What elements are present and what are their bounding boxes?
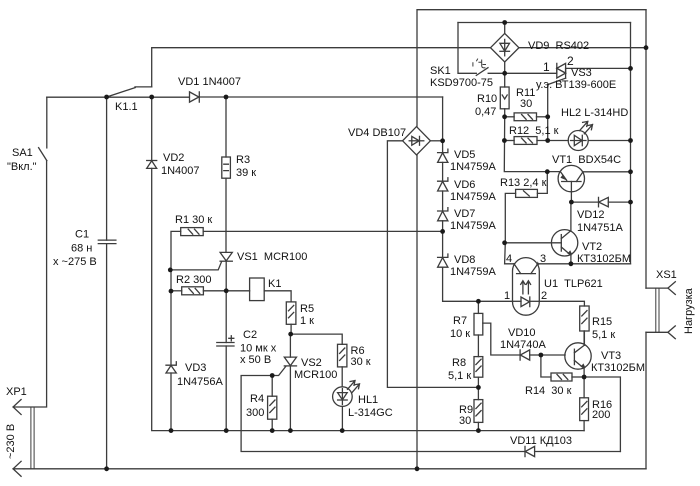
svg-text:R12 5,1 к: R12 5,1 к — [509, 125, 559, 137]
wire: rail VD6-VD7 — [442, 191, 444, 211]
wire: U1 pin2 to R15 — [539, 301, 584, 306]
relay coil K1 — [250, 278, 265, 301]
wire: VS2 column — [289, 334, 291, 357]
svg-text:10 к: 10 к — [450, 328, 470, 340]
thermal switch SK1 — [473, 59, 505, 75]
svg-text:VD3: VD3 — [185, 362, 206, 374]
svg-text:R8: R8 — [452, 357, 466, 369]
wire: K1 feed — [226, 290, 249, 292]
wire: y=97 after VD1 — [200, 96, 443, 98]
svg-text:VD10: VD10 — [508, 327, 536, 339]
svg-text:KSD9700-75: KSD9700-75 — [430, 77, 493, 89]
zener VD8 — [438, 254, 448, 267]
svg-text:K1: K1 — [268, 278, 281, 290]
wire: VT2 base column from R13 — [505, 243, 514, 264]
wire: inner rail left leg to SK1 — [458, 23, 476, 74]
svg-text:C2: C2 — [243, 329, 257, 341]
wire: VS1 gate node down to R2 — [170, 270, 172, 291]
svg-text:R10: R10 — [477, 93, 497, 105]
capacitor C2 — [217, 336, 234, 346]
svg-text:1N4756A: 1N4756A — [177, 376, 224, 388]
svg-text:4: 4 — [506, 253, 512, 265]
svg-text:R5: R5 — [300, 303, 314, 315]
svg-text:х ~275 В: х ~275 В — [53, 256, 97, 268]
svg-text:VD9 RS402: VD9 RS402 — [528, 40, 589, 52]
LED HL1 — [333, 381, 360, 431]
svg-text:C1: C1 — [75, 229, 89, 241]
triac VS3 — [557, 63, 566, 78]
svg-text:х 50 В: х 50 В — [240, 354, 271, 366]
svg-text:1 к: 1 к — [300, 315, 314, 327]
svg-text:68 н: 68 н — [71, 243, 92, 255]
wire: VS3 pin2 to rail — [566, 67, 631, 69]
svg-text:VS2: VS2 — [301, 357, 322, 369]
svg-text:200: 200 — [592, 409, 610, 421]
resistor R8 — [474, 357, 483, 388]
svg-text:Нагрузка: Нагрузка — [683, 287, 695, 334]
svg-text:VD12: VD12 — [577, 209, 605, 221]
bridge VD9 — [491, 33, 519, 62]
svg-text:VT3: VT3 — [601, 350, 621, 362]
wire: phase top y=97 — [47, 96, 190, 98]
svg-text:VD2: VD2 — [163, 152, 184, 164]
svg-text:L-314GC: L-314GC — [348, 407, 393, 419]
wire: R10-R11-R12 column — [504, 117, 560, 172]
svg-text:1N4740A: 1N4740A — [500, 339, 547, 351]
wire: zener rail top corner — [442, 97, 444, 152]
wire: VD10 node down to R14 — [541, 355, 551, 377]
svg-text:VD11 КД103: VD11 КД103 — [510, 435, 572, 447]
wire: VS3 pin1 to SK1 node — [505, 72, 557, 74]
wire: VD9 top to inner rail — [504, 23, 506, 34]
svg-text:R2 300: R2 300 — [176, 274, 211, 286]
optocoupler U1 — [513, 258, 540, 316]
resistor R9 — [474, 400, 483, 431]
transistor VT2 — [504, 202, 578, 264]
wire: U1 pin3 to VT2 emitter and rail end — [538, 263, 631, 265]
thyristor VS1 — [220, 252, 232, 261]
svg-text:300: 300 — [246, 407, 264, 419]
socket XS1 lower contact — [646, 326, 675, 339]
wire: VD2 column — [152, 97, 584, 431]
wire: rail VD8 to U1 pin1 — [443, 267, 513, 301]
wire: R7 top at U1 pin1 wire — [477, 301, 479, 313]
wire: rail VD7-VD8 — [442, 221, 444, 257]
svg-text:2: 2 — [567, 54, 574, 68]
thyristor VS2 — [284, 357, 296, 431]
contact K1.1 — [107, 87, 152, 97]
resistor R6 — [338, 344, 347, 387]
svg-text:VT1 BDX54C: VT1 BDX54C — [552, 154, 621, 166]
svg-text:XP1: XP1 — [6, 386, 27, 398]
wire: VD4 left vertex down to R8/R9 node — [387, 141, 478, 388]
wire: VD4 bottom to neutral — [416, 155, 418, 469]
svg-text:1N4759A: 1N4759A — [450, 220, 497, 232]
diode VD11 — [525, 446, 620, 456]
svg-text:R15: R15 — [592, 316, 612, 328]
wire: rail VD5-VD6 — [442, 162, 444, 181]
svg-text:1: 1 — [504, 290, 510, 302]
svg-text:39 к: 39 к — [236, 167, 256, 179]
svg-text:VD8: VD8 — [454, 254, 475, 266]
svg-text:30 к: 30 к — [351, 356, 371, 368]
resistor R12 — [504, 137, 568, 145]
svg-text:3: 3 — [540, 253, 546, 265]
svg-text:VS3: VS3 — [571, 67, 592, 79]
svg-text:КТ3102БМ: КТ3102БМ — [591, 362, 645, 374]
resistor R5 — [286, 302, 296, 334]
svg-text:30: 30 — [520, 98, 532, 110]
transistor VT3 — [565, 331, 591, 377]
svg-text:VD5: VD5 — [454, 149, 475, 161]
plug XP1 double line — [31, 407, 34, 469]
wire: SK1 node down to R10 — [504, 73, 506, 87]
svg-text:R1 30 к: R1 30 к — [175, 214, 212, 226]
wire: R8/R9 node — [477, 387, 479, 399]
resistor R1 — [171, 228, 443, 270]
wire: VD9 right vertex to right edge — [519, 47, 646, 49]
svg-text:R14 30 к: R14 30 к — [525, 385, 572, 397]
svg-text:XS1: XS1 — [656, 269, 677, 281]
resistor R15 — [580, 306, 589, 345]
svg-text:R4: R4 — [250, 393, 264, 405]
zener VD5 — [438, 149, 448, 162]
diode VD10 — [520, 350, 541, 360]
svg-text:0,47: 0,47 — [475, 106, 496, 118]
wire: rail x=630.5 — [630, 23, 632, 264]
switch SA1 — [39, 97, 47, 160]
wire: VS1 gate — [170, 262, 221, 270]
zener VD3 — [166, 362, 176, 373]
wire: VD10 node to VT3 base — [541, 354, 565, 356]
wire: right edge upper — [645, 10, 647, 288]
svg-text:U1 TLP621: U1 TLP621 — [544, 278, 603, 290]
wire: R11 right down to R12 right — [547, 117, 549, 141]
svg-text:SK1: SK1 — [430, 65, 451, 77]
svg-text:"Вкл.": "Вкл." — [7, 161, 37, 173]
diode VD2 — [147, 161, 157, 169]
svg-text:5,1 к: 5,1 к — [592, 329, 615, 341]
zener VD7 — [438, 208, 448, 221]
diode VD1 — [190, 92, 200, 102]
svg-text:1N4751A: 1N4751A — [577, 222, 624, 234]
svg-text:5,1 к: 5,1 к — [448, 370, 471, 382]
svg-text:VD1 1N4007: VD1 1N4007 — [178, 76, 241, 88]
wire: R3 / VS1 column — [225, 97, 227, 431]
resistor R7 — [474, 313, 483, 356]
svg-text:R13 2,4 к: R13 2,4 к — [500, 177, 547, 189]
svg-text:VS1 MCR100: VS1 MCR100 — [237, 251, 307, 263]
svg-text:VT2: VT2 — [582, 241, 602, 253]
bridge VD4 — [403, 127, 431, 155]
svg-text:у.э. ВТ139-600Е: у.э. ВТ139-600Е — [536, 79, 616, 91]
svg-text:1N4759A: 1N4759A — [450, 191, 497, 203]
capacitor C1 — [98, 240, 116, 244]
wire: VT3 emitter node right to VD11 riser — [584, 377, 620, 452]
wire: K1 to R5 — [264, 291, 291, 302]
resistor R14 — [551, 373, 584, 381]
svg-text:VD6: VD6 — [454, 179, 475, 191]
wire: VD3 column — [170, 291, 172, 431]
resistor R11 — [505, 113, 548, 121]
zener VD6 — [438, 178, 448, 191]
wire: XP1 upper pin to SA1 — [13, 161, 47, 415]
svg-text:2: 2 — [541, 290, 547, 302]
svg-text:~230 В: ~230 В — [5, 424, 17, 459]
socket XS1 double line — [656, 288, 659, 332]
wire: R7 tap to VD10 — [483, 323, 520, 355]
socket XS1 upper contact — [646, 282, 675, 295]
LED HL2 — [568, 121, 630, 150]
wire: VS2 gate run to VD11 — [241, 367, 525, 452]
wire: node R5 bottom to R6 — [290, 334, 342, 344]
wire: VD4 top to box top rail — [417, 10, 646, 127]
svg-text:VD4 DB107: VD4 DB107 — [348, 127, 406, 139]
resistor R10 — [500, 87, 509, 117]
svg-text:MCR100: MCR100 — [294, 369, 337, 381]
svg-text:K1.1: K1.1 — [115, 101, 138, 113]
wire: VD9 bottom to SK1 node — [504, 62, 506, 73]
svg-text:30: 30 — [459, 415, 471, 427]
svg-text:HL2 L-314HD: HL2 L-314HD — [561, 107, 628, 119]
wire: riser to top rail and to VD9 left — [152, 48, 491, 87]
svg-text:1N4007: 1N4007 — [161, 165, 200, 177]
wire: bottom neutral — [13, 468, 646, 470]
resistor R2 — [171, 287, 226, 295]
resistor R16 — [580, 398, 589, 431]
svg-text:КТ3102БМ: КТ3102БМ — [577, 253, 631, 265]
svg-text:HL1: HL1 — [358, 394, 378, 406]
resistor R13 — [505, 172, 547, 243]
wire: inner top rail y=22.5 — [458, 22, 631, 24]
transistor VT1 — [558, 165, 630, 202]
svg-text:SA1: SA1 — [12, 147, 33, 159]
wire: VT3 emitter node down to R16 — [583, 377, 585, 398]
svg-text:1N4759A: 1N4759A — [450, 266, 497, 278]
svg-text:1: 1 — [543, 60, 550, 74]
svg-text:VD7: VD7 — [454, 208, 475, 220]
wire: VS3 gate — [548, 78, 566, 117]
wire: C1 column — [106, 97, 108, 469]
resistor R4 — [268, 376, 277, 431]
svg-text:R7: R7 — [453, 315, 467, 327]
diode VD12 — [571, 197, 630, 206]
svg-text:1N4759A: 1N4759A — [450, 161, 497, 173]
svg-text:10 мк х: 10 мк х — [240, 343, 277, 355]
svg-text:R3: R3 — [236, 154, 250, 166]
wire: VD4 right vertex to rail — [430, 140, 442, 142]
wire: right edge lower — [645, 332, 647, 469]
resistor R3 — [222, 157, 231, 178]
